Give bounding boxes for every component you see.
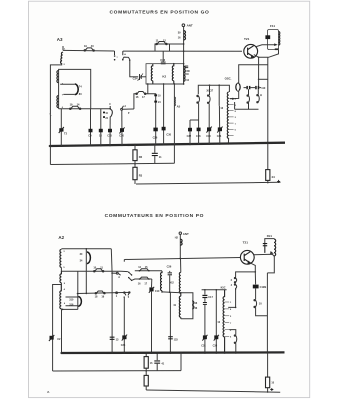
bottom return wire [146, 390, 280, 392]
wire upper-left K area junction [111, 272, 113, 274]
svg-text:310: 310 [69, 298, 74, 301]
ferrite coupling curve [60, 84, 75, 94]
long vertical (2) [266, 273, 268, 353]
antenna lead to coil D [180, 259, 182, 273]
antenna line through K2 right edge with coil C38 [183, 64, 185, 84]
column C9 [90, 109, 92, 146]
column T2 [60, 109, 62, 146]
ferrite box outline [59, 69, 91, 108]
svg-text:133: 133 [174, 339, 179, 342]
resistor R3 [134, 164, 136, 167]
second column [215, 290, 217, 353]
column from 16/17 with parts 10/24 [148, 94, 156, 145]
wire2 right segment [121, 270, 128, 272]
svg-text:K5C: K5C [221, 286, 226, 289]
switch S1-2 (11/12) in loop [156, 42, 167, 45]
column C34b trimmer [218, 106, 220, 144]
column C3 trimmer [123, 297, 125, 353]
capacitor row C28 [246, 86, 259, 89]
antenna coil 2 [180, 239, 182, 245]
svg-text:C12B: C12B [260, 285, 267, 289]
contact circle 1 [116, 292, 118, 294]
svg-text:C10: C10 [155, 290, 160, 293]
wire 3 [78, 292, 131, 293]
svg-text:C34: C34 [217, 135, 222, 138]
wire mid return y164 [50, 163, 174, 164]
coil C [161, 271, 163, 292]
svg-text:C36: C36 [167, 265, 172, 269]
switch bridge lower [132, 279, 152, 280]
contact C with hook [109, 106, 112, 117]
oscillator coil [227, 92, 229, 139]
column C30 [163, 84, 165, 144]
bus 2 (thick ground line) [61, 351, 284, 354]
osc contact hooks [236, 84, 240, 91]
trimmer C2 far left [50, 336, 54, 340]
svg-text:316: 316 [69, 303, 74, 306]
antenna lead vertical [183, 27, 185, 64]
wire loop to antenna line [155, 44, 184, 51]
vertical from top wire right end [110, 249, 113, 273]
svg-text:A2: A2 [58, 235, 64, 240]
svg-text:C33: C33 [206, 135, 211, 138]
loop back up [181, 293, 193, 319]
mid return wire y371 [53, 370, 181, 372]
svg-text:2.: 2. [47, 390, 50, 394]
capacitor 133 on drop [168, 336, 173, 339]
svg-text:T21: T21 [243, 240, 249, 244]
resistor R5 below bus [145, 353, 147, 357]
svg-text:C2: C2 [57, 337, 61, 341]
svg-text:K2: K2 [170, 281, 174, 285]
column C33 contact [208, 103, 210, 143]
coil 3 [60, 285, 61, 309]
left column wire y289.8 [202, 289, 227, 291]
svg-text:C31: C31 [201, 344, 206, 347]
contact column right of coil [229, 330, 236, 335]
antenna terminal 2 [179, 232, 181, 234]
small parts on loop [192, 301, 194, 309]
bottom junction wire K area [162, 291, 181, 294]
wire coil bottom down and left [267, 256, 274, 273]
vertical bus to return at right of C1 [173, 144, 175, 163]
svg-text:ANT: ANT [183, 232, 189, 236]
switch S1-3 (19/14) [70, 106, 81, 109]
svg-text:K2: K2 [162, 74, 166, 78]
emitter net (2) [250, 263, 255, 272]
column 18 [100, 109, 102, 146]
osc coil pin ticks [228, 98, 233, 135]
svg-text:C30: C30 [166, 132, 171, 136]
svg-text:A3: A3 [57, 37, 63, 42]
K2 right winding [172, 64, 174, 84]
contact slant pairs [128, 272, 132, 282]
left coil stack: top wire [61, 248, 111, 250]
K2 bottom junction dots [147, 83, 185, 85]
column C38b contact [198, 103, 200, 144]
svg-text:A: A [118, 276, 120, 279]
svg-text:C34: C34 [213, 344, 218, 347]
bus (thick ground line) [50, 143, 285, 146]
column A5 [173, 84, 175, 144]
coil A in box [57, 71, 59, 83]
svg-text:COMMUTATEURS EN POSITION GO: COMMUTATEURS EN POSITION GO [110, 10, 210, 16]
wire y109.3 [235, 102, 259, 109]
coupling curve 2 [66, 271, 79, 309]
plus terminal 2 [270, 388, 273, 391]
wire long horizontal to base [124, 258, 240, 260]
resistor F11 (dark, on left edge) [265, 35, 270, 39]
svg-text:44: 44 [271, 175, 275, 179]
coil pin ticks [225, 302, 230, 337]
left drop to bus2 [61, 309, 63, 353]
wire block output down-left to node [259, 50, 279, 58]
C17 column [204, 290, 206, 295]
coil B in box [57, 96, 59, 108]
svg-text:C17: C17 [208, 295, 213, 299]
svg-text:C10: C10 [119, 134, 124, 138]
coil F11 right edge [279, 32, 280, 46]
svg-text:A5: A5 [177, 105, 181, 109]
K2 transformer box [146, 64, 184, 84]
switch 16/17 [136, 92, 146, 95]
svg-text:ANT: ANT [187, 24, 193, 28]
F11 coil (2) [274, 239, 276, 256]
coil 2 [60, 271, 62, 283]
capacitor below bus [156, 353, 158, 360]
trimmer C10 (2) [151, 279, 153, 287]
wire to coil pin [228, 288, 235, 307]
transistor T21 [244, 44, 258, 58]
rail y85.2 with corner drops [198, 85, 229, 94]
node: ant/loop junction [183, 43, 185, 45]
wire bottom return [136, 182, 281, 184]
long vertical collector net [267, 57, 269, 143]
switch contact break, left pole [114, 51, 116, 61]
column 13 (from top wire to bus) [111, 273, 113, 353]
coil 1 [60, 249, 62, 267]
svg-text:R3: R3 [139, 173, 143, 177]
resistor R4 [267, 143, 269, 170]
svg-text:C15: C15 [107, 134, 112, 138]
svg-text:C26: C26 [153, 136, 158, 140]
collector slant to coil [254, 254, 275, 256]
wire y64.8 [239, 65, 268, 84]
antenna terminal [182, 24, 185, 27]
wire 2 left [61, 267, 121, 271]
column C15 [109, 117, 111, 146]
antenna lead 2 [179, 234, 181, 259]
junction dots on bus [49, 142, 269, 147]
switch 10/11 [94, 269, 104, 272]
wire mid horizontal y108.8 [59, 108, 111, 110]
thick mark bottom right of block [275, 48, 279, 50]
svg-text:30C27: 30C27 [206, 91, 213, 93]
svg-text:C36: C36 [121, 344, 126, 347]
svg-text:FE1: FE1 [267, 234, 273, 238]
resistor R6 [145, 371, 147, 376]
column C32 with jog [190, 120, 199, 144]
jog to far-left rail [53, 283, 62, 371]
contact pair 2/4 [234, 277, 236, 290]
svg-text:COMMUTATEURS EN POSITION PO: COMMUTATEURS EN POSITION PO [105, 213, 204, 219]
wire top horizontal [63, 49, 115, 52]
wire coil to left rail [50, 63, 61, 165]
switch 18/19 [95, 291, 105, 294]
stub emitter to collector line [259, 78, 268, 80]
wire from mid line up to 16/17 switch [134, 84, 148, 109]
contact 10 [254, 300, 257, 308]
coupling curve 1 with column [85, 249, 87, 294]
K2 left winding [151, 64, 153, 84]
contact A open circle [121, 106, 124, 110]
contact pair lower right 1 [247, 89, 250, 109]
coil D [179, 272, 180, 296]
resistor R7 right [267, 353, 269, 378]
left input coil L1 [62, 46, 64, 52]
column C10 trimmer [121, 110, 123, 145]
drop to bus from K area [169, 292, 171, 353]
cap in F11 block [263, 243, 267, 246]
svg-text:T21: T21 [244, 37, 250, 41]
switch contact right pole with bridge [122, 51, 131, 61]
svg-text:C32: C32 [187, 135, 192, 138]
capacitor C1 [154, 145, 156, 153]
svg-text:F11: F11 [270, 24, 275, 28]
contact on wire2 end [112, 272, 121, 275]
svg-text:C9: C9 [88, 134, 92, 138]
C12B column [254, 272, 256, 285]
emitter wire [254, 55, 259, 88]
tall output coil [223, 290, 225, 353]
antenna coil [184, 31, 186, 40]
contact pair lower right 2 [257, 89, 262, 103]
svg-text:C38: C38 [196, 135, 201, 138]
switch bridge 14/15 [135, 270, 162, 272]
svg-text:OSC.: OSC. [225, 77, 232, 81]
svg-text:R2: R2 [139, 155, 143, 159]
resistor R2 [134, 145, 136, 150]
svg-text:110: 110 [261, 86, 266, 90]
coil E [179, 296, 180, 319]
junction dots on bus 2 [60, 352, 268, 355]
plus terminal [277, 180, 280, 183]
switch S1-1 (19/40) [84, 48, 94, 51]
bottom junction of coil3 [61, 308, 78, 311]
contact pair 3/5 [124, 292, 130, 296]
junction left rail/bus [50, 145, 52, 147]
transistor T21 (2) [240, 250, 254, 264]
collector wire with arrow into F11 [256, 45, 275, 47]
